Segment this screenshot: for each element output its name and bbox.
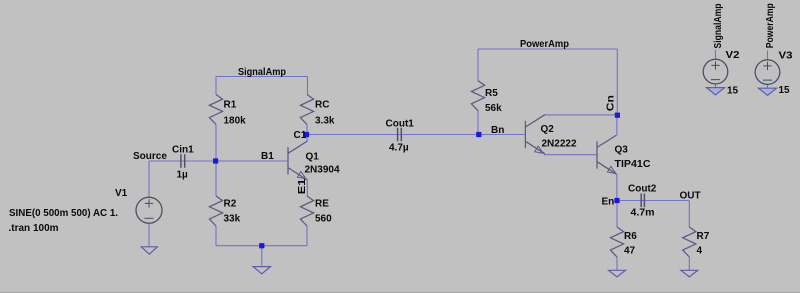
svg-text:Cn: Cn	[606, 95, 617, 111]
svg-text:3.3k: 3.3k	[315, 116, 335, 127]
svg-text:15: 15	[727, 85, 739, 96]
svg-text:Q2: Q2	[541, 124, 555, 135]
svg-text:R6: R6	[624, 231, 637, 242]
svg-text:V2: V2	[726, 50, 740, 61]
svg-text:4: 4	[697, 246, 703, 257]
svg-text:4.7µ: 4.7µ	[389, 143, 409, 154]
svg-text:SINE(0 500m 500) AC 1.: SINE(0 500m 500) AC 1.	[9, 208, 118, 219]
svg-text:Cout2: Cout2	[628, 184, 657, 195]
svg-text:R2: R2	[224, 199, 237, 210]
svg-text:2N2222: 2N2222	[542, 138, 577, 149]
svg-text:.tran 100m: .tran 100m	[9, 223, 59, 234]
svg-text:560: 560	[315, 214, 332, 225]
svg-text:Q1: Q1	[306, 152, 320, 163]
svg-text:Bn: Bn	[491, 125, 504, 136]
svg-text:Cout1: Cout1	[386, 119, 415, 130]
svg-text:En: En	[602, 196, 615, 207]
svg-text:47: 47	[624, 246, 636, 257]
svg-text:180k: 180k	[224, 116, 247, 127]
svg-text:R1: R1	[224, 100, 237, 111]
svg-text:OUT: OUT	[680, 190, 701, 201]
svg-text:SignalAmp: SignalAmp	[238, 67, 286, 78]
svg-text:B1: B1	[261, 151, 274, 162]
svg-text:2N3904: 2N3904	[305, 165, 340, 176]
svg-text:RE: RE	[315, 199, 329, 210]
svg-text:33k: 33k	[224, 214, 241, 225]
svg-text:TIP41C: TIP41C	[615, 159, 651, 170]
svg-text:V1: V1	[115, 188, 128, 199]
svg-text:C1: C1	[294, 130, 307, 141]
svg-text:56k: 56k	[485, 103, 502, 114]
svg-text:Source: Source	[133, 151, 167, 162]
svg-text:15: 15	[779, 85, 791, 96]
svg-text:E1: E1	[297, 178, 308, 194]
svg-text:SignalAmp: SignalAmp	[713, 4, 724, 49]
svg-text:PowerAmp: PowerAmp	[765, 3, 776, 48]
svg-text:4.7m: 4.7m	[631, 207, 655, 218]
svg-text:R5: R5	[485, 88, 498, 99]
svg-text:1µ: 1µ	[177, 170, 189, 181]
svg-text:Cin1: Cin1	[172, 145, 194, 156]
svg-text:RC: RC	[315, 100, 329, 111]
svg-text:Q3: Q3	[615, 144, 629, 155]
svg-text:R7: R7	[697, 231, 710, 242]
svg-text:PowerAmp: PowerAmp	[520, 39, 569, 50]
svg-text:V3: V3	[779, 50, 793, 61]
